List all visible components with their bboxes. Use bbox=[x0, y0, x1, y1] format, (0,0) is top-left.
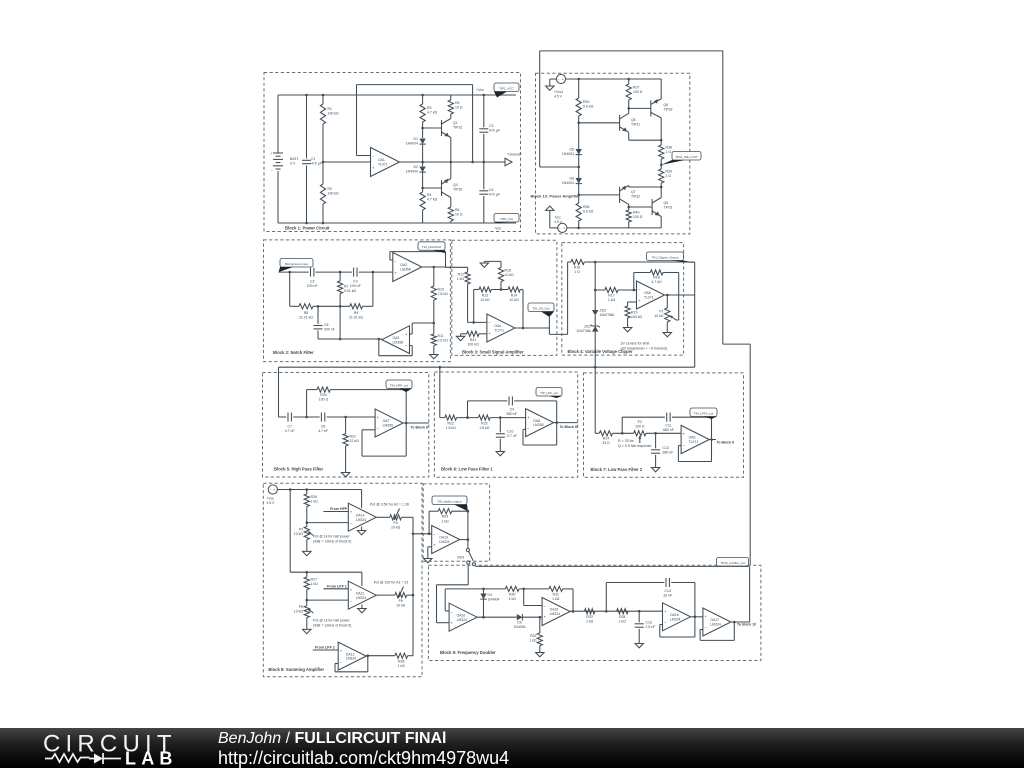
svg-text:1 kΩ: 1 kΩ bbox=[586, 620, 594, 624]
svg-text:Q8: Q8 bbox=[664, 201, 669, 205]
wire Q4 emitter to node bbox=[450, 162, 452, 179]
svg-text:C13: C13 bbox=[646, 621, 652, 625]
wire R13-R14 bbox=[491, 289, 508, 291]
wire divider to OA3 + bbox=[412, 322, 434, 324]
svg-text:+: + bbox=[704, 614, 707, 619]
svg-text:LM358: LM358 bbox=[533, 423, 543, 427]
svg-text:LM324: LM324 bbox=[356, 596, 366, 600]
junction Q1 base node bbox=[421, 127, 424, 130]
transistor Q4 TIP32 bbox=[441, 180, 443, 196]
wire OA17 output bbox=[731, 621, 750, 623]
svg-text:100 Ω: 100 Ω bbox=[633, 90, 643, 94]
svg-text:4.7 nF: 4.7 nF bbox=[285, 429, 295, 433]
block 7 outline: Low Pass Filter 2 bbox=[584, 373, 744, 477]
capacitor C9 680nF bbox=[508, 396, 510, 405]
junction OA3 out bbox=[378, 338, 381, 341]
svg-text:4.5 V: 4.5 V bbox=[267, 501, 276, 505]
wire Q4 base bbox=[423, 187, 442, 189]
svg-text:TL071: TL071 bbox=[494, 329, 504, 333]
junction R14 riser bbox=[522, 327, 525, 330]
svg-text:C10: C10 bbox=[507, 430, 513, 434]
wire row1 mid bbox=[316, 271, 352, 273]
wire Q8 collector bbox=[660, 187, 662, 198]
resistor R41 100k bbox=[461, 333, 467, 335]
svg-text:TP11_PaH_OUT: TP11_PaH_OUT bbox=[675, 155, 698, 159]
diode D1 1N4004 bbox=[422, 128, 424, 138]
svg-text:R9: R9 bbox=[354, 311, 359, 315]
svg-text:+: + bbox=[544, 615, 547, 620]
net flag Microphone Input bbox=[280, 259, 313, 268]
svg-text:+: + bbox=[488, 331, 491, 336]
svg-text:−: − bbox=[433, 532, 436, 537]
net flag TIN_LPF2_out bbox=[690, 408, 717, 417]
wire OA1 output row bbox=[400, 161, 506, 163]
junction C11 tap bbox=[621, 432, 624, 435]
capacitor C10 2.7nF bbox=[499, 418, 501, 433]
wire rectifier-out to power-amp loop bbox=[539, 51, 541, 167]
svg-text:Q1: Q1 bbox=[453, 121, 458, 125]
svg-text:R13: R13 bbox=[482, 294, 488, 298]
wire top rail block10 bbox=[566, 78, 662, 80]
svg-text:OA15: OA15 bbox=[550, 608, 559, 612]
svg-text:-Vcc: -Vcc bbox=[494, 227, 501, 231]
svg-text:10 kΩ: 10 kΩ bbox=[294, 610, 304, 614]
wire OA12 output bbox=[366, 655, 395, 657]
svg-text:+: + bbox=[527, 415, 530, 420]
wire R29 feedback bbox=[429, 510, 438, 512]
svg-text:Block 3: Small Signal Amplifie: Block 3: Small Signal Amplifier bbox=[462, 349, 524, 354]
op-amp OA13 LM324 bbox=[432, 526, 460, 554]
resistor R23 1.8k bbox=[478, 415, 490, 420]
svg-text:LM324: LM324 bbox=[550, 612, 560, 616]
resistor R14 10k bbox=[508, 287, 520, 292]
junction C3 top bbox=[483, 94, 486, 97]
resistor R16 1ohm bbox=[568, 261, 571, 263]
junction R10-R11 bbox=[433, 322, 436, 325]
svg-text:Q7: Q7 bbox=[631, 190, 636, 194]
svg-text:1 kΩ: 1 kΩ bbox=[398, 664, 406, 668]
wire OA15 output row bbox=[570, 610, 662, 612]
junction C3 bottom ground row bbox=[483, 161, 486, 164]
svg-text:+: + bbox=[638, 298, 641, 303]
wire V3 rail bbox=[277, 489, 361, 491]
svg-text:+: + bbox=[350, 509, 353, 514]
svg-text:OA16: OA16 bbox=[670, 613, 679, 617]
capacitor C3 470uF bbox=[483, 95, 485, 127]
wire Q5 base bbox=[579, 122, 620, 124]
wire minus row bbox=[468, 321, 487, 323]
svg-text:TL071: TL071 bbox=[644, 296, 654, 300]
ground R11 bbox=[433, 352, 435, 355]
op-amp OA8 LM358 bbox=[526, 409, 554, 437]
wire R18 feedback box bbox=[634, 289, 637, 291]
resistor R37 100 bbox=[628, 79, 630, 84]
svg-text:TIN_Clipper_Output: TIN_Clipper_Output bbox=[652, 255, 679, 259]
svg-text:1 Ω: 1 Ω bbox=[666, 174, 672, 178]
wire OA16 feedback box bbox=[660, 624, 663, 626]
wire Q5 collector bbox=[628, 108, 630, 113]
svg-text:D2: D2 bbox=[414, 165, 419, 169]
op-amp OA12 LM324 bbox=[338, 642, 366, 670]
svg-text:+: + bbox=[683, 432, 686, 437]
wire OA4 output bbox=[515, 327, 549, 329]
svg-text:100 nF: 100 nF bbox=[307, 284, 318, 288]
wire OA1 feedback bbox=[357, 155, 371, 157]
logo resistor squiggle bbox=[45, 754, 90, 762]
resistor R21 22k bbox=[345, 417, 347, 434]
junction OA16 out bbox=[694, 616, 697, 619]
op-amp OA3 LM358 flipped bbox=[382, 326, 410, 354]
junction filter net block6 bbox=[439, 366, 442, 369]
svg-text:100 kΩ: 100 kΩ bbox=[467, 343, 479, 347]
wire C11 feedback bbox=[621, 417, 623, 433]
resistor R1 100k bbox=[322, 95, 324, 104]
svg-text:−: − bbox=[544, 604, 547, 609]
junction R26 top bbox=[306, 488, 309, 491]
block 2 outline: Notch Filter bbox=[264, 240, 451, 362]
wire top rail block1 bbox=[278, 94, 516, 96]
svg-text:1N4004: 1N4004 bbox=[488, 598, 500, 602]
resistor R29 1k bbox=[438, 509, 452, 514]
svg-text:2.5 kΩ: 2.5 kΩ bbox=[438, 339, 449, 343]
svg-text:1 kΩ: 1 kΩ bbox=[441, 519, 449, 523]
svg-text:P4: P4 bbox=[393, 521, 397, 525]
logo diode bbox=[89, 753, 111, 764]
wire OA10 output bbox=[477, 616, 517, 618]
ground P1 bbox=[666, 330, 668, 333]
capacitor C2 100nF bbox=[310, 268, 312, 277]
svg-text:LM324: LM324 bbox=[439, 540, 449, 544]
transistor Q6 TIP32 bbox=[650, 100, 652, 116]
battery BAT1 9V bbox=[273, 152, 283, 154]
svg-text:R34: R34 bbox=[619, 615, 625, 619]
svg-text:OA1: OA1 bbox=[378, 158, 385, 162]
svg-text:−: − bbox=[372, 154, 375, 159]
resistor R8 21.01k bbox=[290, 305, 299, 307]
resistor R40 100 bbox=[626, 210, 631, 222]
wire input riser block5 bbox=[278, 367, 280, 417]
svg-text:R1: R1 bbox=[328, 107, 333, 111]
junction C10 tap bbox=[499, 416, 502, 419]
wire input from block2 bbox=[446, 266, 468, 268]
resistor R32 1k bbox=[539, 617, 541, 633]
junction mid node bbox=[660, 186, 663, 189]
svg-text:R19: R19 bbox=[631, 311, 637, 315]
wire C14 feedback bbox=[605, 583, 607, 612]
wire OA2 feedback bbox=[390, 259, 393, 261]
junction OA2 out bbox=[433, 266, 436, 269]
svg-text:OA8: OA8 bbox=[533, 419, 540, 423]
resistor R2 100k bbox=[322, 162, 324, 184]
resistor R10 7.5k bbox=[433, 267, 435, 286]
capacitor C13 1.5nF bbox=[638, 611, 640, 622]
svg-text:Q5: Q5 bbox=[631, 118, 636, 122]
block 10 outline: Power Amplifier bbox=[536, 73, 690, 234]
svg-text:R17: R17 bbox=[608, 294, 614, 298]
svg-text:C9: C9 bbox=[510, 408, 515, 412]
net flag TIP1_VCC bbox=[494, 83, 519, 92]
resistor R11 2.5k bbox=[433, 323, 435, 334]
svg-text:680 nF: 680 nF bbox=[663, 451, 674, 455]
ground V1 bbox=[550, 78, 557, 80]
diode D5 1N4004 bbox=[576, 149, 582, 155]
svg-text:P6: P6 bbox=[399, 599, 403, 603]
svg-text:R14: R14 bbox=[511, 294, 517, 298]
svg-text:Pot @ 1k for half power: Pot @ 1k for half power bbox=[313, 535, 350, 539]
svg-text:5.6 kΩ: 5.6 kΩ bbox=[583, 105, 594, 109]
transistor Q5 TIP31 bbox=[619, 115, 621, 131]
svg-text:470 µF: 470 µF bbox=[489, 193, 500, 197]
svg-text:P5: P5 bbox=[299, 605, 303, 609]
svg-text:4.7 kΩ: 4.7 kΩ bbox=[427, 111, 438, 115]
svg-text:TIN_HPF_out: TIN_HPF_out bbox=[390, 383, 409, 387]
svg-text:5.6 kΩ: 5.6 kΩ bbox=[583, 210, 594, 214]
transistor Q8 TIP31 bbox=[651, 199, 653, 215]
resistor R15 10k bbox=[500, 261, 502, 267]
junction Q5 base row bbox=[577, 122, 580, 125]
junction bus adder row bbox=[412, 533, 415, 536]
capacitor C5 200nF bbox=[317, 306, 319, 324]
svg-text:LM324: LM324 bbox=[346, 657, 356, 661]
op-amp OA16 LM324 bbox=[663, 603, 691, 631]
junction OA7 out bbox=[405, 422, 408, 425]
svg-text:R29: R29 bbox=[442, 515, 448, 519]
wire OA10 feedback row bbox=[445, 610, 449, 612]
svg-text:100 kΩ: 100 kΩ bbox=[328, 192, 340, 196]
svg-text:1 kΩ: 1 kΩ bbox=[311, 500, 319, 504]
svg-text:−: − bbox=[340, 659, 343, 664]
svg-text:−: − bbox=[350, 598, 353, 603]
potentiometer P6 10k bbox=[395, 593, 407, 598]
resistor R26 1k bbox=[306, 490, 308, 495]
junction R37 top bbox=[627, 78, 630, 81]
svg-text:TIP31: TIP31 bbox=[664, 206, 673, 210]
net flag TIP0_Vss bbox=[494, 214, 519, 223]
svg-text:R12: R12 bbox=[458, 273, 464, 277]
svg-text:R6: R6 bbox=[455, 208, 460, 212]
svg-text:To Block 8: To Block 8 bbox=[717, 441, 734, 445]
junction bus stage2 bbox=[412, 594, 415, 597]
svg-text:OA4: OA4 bbox=[494, 324, 501, 328]
junction input node bbox=[288, 271, 291, 274]
svg-text:Block 1: Power Circuit: Block 1: Power Circuit bbox=[285, 226, 330, 231]
resistor R30b 1k bbox=[505, 586, 519, 591]
potentiometer P4 10k bbox=[390, 515, 402, 520]
svg-text:+: + bbox=[372, 165, 375, 170]
svg-text:1N4738A: 1N4738A bbox=[600, 313, 615, 317]
svg-text:R33: R33 bbox=[586, 615, 592, 619]
junction D4 bottom bbox=[482, 616, 485, 619]
svg-text:TIP1_VCC: TIP1_VCC bbox=[499, 86, 514, 90]
block 9 adder outline bbox=[423, 484, 489, 561]
junction row1 right bbox=[372, 271, 375, 274]
svg-text:470 µF: 470 µF bbox=[311, 162, 322, 166]
svg-text:OA13: OA13 bbox=[439, 536, 448, 540]
ground C10 bbox=[499, 449, 501, 452]
svg-text:R30: R30 bbox=[583, 100, 589, 104]
svg-text:1N4004: 1N4004 bbox=[514, 625, 526, 629]
resistor R17 1k bbox=[595, 289, 605, 291]
svg-text:R21: R21 bbox=[350, 435, 356, 439]
junction divider mid bbox=[322, 161, 325, 164]
svg-text:−: − bbox=[664, 620, 667, 625]
junction D1-D2 node bbox=[421, 161, 424, 164]
junction output-feedback bbox=[471, 161, 474, 164]
svg-text:OA17: OA17 bbox=[710, 618, 719, 622]
voltage source V3 +Vcc bbox=[268, 485, 277, 494]
svg-text:To block 10: To block 10 bbox=[737, 622, 756, 626]
junction minus node bbox=[472, 321, 475, 324]
svg-text:Q = 0.5 flat response: Q = 0.5 flat response bbox=[618, 444, 651, 448]
ground OA14 bbox=[361, 527, 363, 531]
wire stage3 plus row bbox=[313, 649, 338, 651]
svg-text:C12: C12 bbox=[663, 446, 669, 450]
svg-text:−: − bbox=[377, 426, 380, 431]
block 9 outline: Frequency Doubler bbox=[428, 565, 761, 660]
svg-text:R24: R24 bbox=[603, 437, 609, 441]
ground C12 bbox=[655, 465, 657, 468]
net flag TIN_adder_output bbox=[432, 496, 467, 505]
ground C13 bbox=[638, 641, 640, 644]
wire clipper output riser bbox=[694, 262, 696, 367]
junction OA17 out bbox=[733, 621, 736, 624]
svg-text:R32: R32 bbox=[530, 634, 536, 638]
net flag TIN_Clipper_Output bbox=[647, 252, 684, 261]
junction R27 top bbox=[306, 571, 309, 574]
svg-text:LM358: LM358 bbox=[383, 424, 393, 428]
wire R13 to minus node bbox=[473, 290, 475, 323]
junction R2 bottom bbox=[322, 222, 325, 225]
wire C9 feedback bbox=[467, 401, 469, 418]
svg-text:R5: R5 bbox=[455, 101, 460, 105]
svg-text:Q6: Q6 bbox=[664, 103, 669, 107]
resistor R12 1k bbox=[467, 267, 469, 272]
net flag TIP_LPF_out bbox=[536, 388, 562, 397]
potentiometer P3 10k bbox=[306, 523, 308, 527]
capacitor C7 4.7nF bbox=[287, 413, 289, 422]
resistor R34 1k bbox=[617, 609, 628, 614]
svg-text:100 kΩ: 100 kΩ bbox=[328, 112, 340, 116]
svg-text:LM324: LM324 bbox=[356, 518, 366, 522]
svg-text:Q4: Q4 bbox=[453, 183, 458, 187]
wire OA8 unity feedback bbox=[523, 428, 526, 430]
svg-text:+: + bbox=[664, 609, 667, 614]
svg-text:R39: R39 bbox=[666, 170, 672, 174]
wire stage1 minus row bbox=[307, 522, 349, 524]
junction R30 top bbox=[577, 78, 580, 81]
wire OA2 output row bbox=[422, 266, 446, 268]
svg-text:TIP0_Vss: TIP0_Vss bbox=[500, 217, 514, 221]
svg-text:D5: D5 bbox=[570, 148, 575, 152]
svg-text:1.5 nF: 1.5 nF bbox=[646, 625, 656, 629]
svg-text:R3: R3 bbox=[427, 106, 432, 110]
resistor R31 1k bbox=[549, 586, 563, 591]
svg-text:1 kΩ: 1 kΩ bbox=[608, 298, 616, 302]
resistor R24 33 bbox=[595, 432, 599, 434]
svg-text:+: + bbox=[562, 78, 565, 82]
net flag TIN_HPF_out bbox=[386, 380, 412, 389]
junction OA9 out bbox=[710, 438, 713, 441]
junction OA12 out bbox=[367, 654, 370, 657]
svg-text:10 kΩ: 10 kΩ bbox=[396, 604, 406, 608]
svg-text:9 V: 9 V bbox=[290, 162, 296, 166]
junction stage2 minus node bbox=[306, 599, 309, 602]
junction output col top bbox=[660, 139, 663, 142]
net flag TIN_SS_Out bbox=[528, 303, 554, 312]
junction OA13 out bbox=[467, 538, 470, 541]
svg-text:470 µF: 470 µF bbox=[489, 129, 500, 133]
svg-text:From LPF 1: From LPF 1 bbox=[327, 584, 347, 588]
wire input riser bbox=[567, 262, 569, 334]
wire rail drop to stage2 bbox=[289, 490, 291, 573]
svg-text:P2: P2 bbox=[638, 420, 642, 424]
resistor R7 9.01k bbox=[339, 272, 341, 281]
svg-text:LM324: LM324 bbox=[670, 617, 680, 621]
wire row2 right riser bbox=[372, 272, 374, 306]
svg-text:+Vcc: +Vcc bbox=[476, 88, 484, 92]
wire row C7-C8 bbox=[293, 416, 319, 418]
op-amp OA10 LM324 bbox=[449, 603, 477, 631]
ground R41 bbox=[460, 334, 462, 337]
junction filter net block7 bbox=[594, 366, 597, 369]
svg-text:OA11: OA11 bbox=[356, 591, 365, 595]
wire OA11 vplus pin bbox=[361, 572, 363, 586]
junction C1 bottom bbox=[305, 222, 308, 225]
svg-text:C4: C4 bbox=[489, 188, 494, 192]
svg-text:100 nF: 100 nF bbox=[350, 284, 361, 288]
svg-text:680 nF: 680 nF bbox=[507, 412, 518, 416]
junction R36 bottom bbox=[577, 227, 580, 230]
wire OA14 output bbox=[376, 516, 390, 518]
wire OA13 plus to ground bbox=[428, 546, 432, 548]
junction R29 out bbox=[467, 510, 470, 513]
resistor R39 1ohm bbox=[660, 165, 662, 169]
junction R20 tap bbox=[305, 416, 308, 419]
svg-text:OA12: OA12 bbox=[346, 652, 355, 656]
op-amp OA1 TL071 bbox=[371, 148, 400, 177]
wire plus bias bbox=[628, 301, 637, 303]
svg-text:R11: R11 bbox=[438, 334, 444, 338]
svg-text:R4: R4 bbox=[427, 193, 432, 197]
transistor Q1 TIP31 bbox=[441, 120, 443, 136]
wire stage2 minus row bbox=[307, 599, 349, 601]
wire Q8 emitter bbox=[660, 217, 662, 228]
wire OA8 output bbox=[554, 422, 578, 424]
wire OA12 feedback box bbox=[335, 663, 338, 665]
svg-text:Block 10: Power Amplifier: Block 10: Power Amplifier bbox=[531, 193, 581, 198]
ground P3 bbox=[306, 549, 308, 552]
svg-text:−: − bbox=[405, 343, 408, 348]
wire OA15 minus riser bbox=[523, 589, 525, 606]
svg-text:OA9: OA9 bbox=[689, 436, 696, 440]
svg-text:−: − bbox=[488, 320, 491, 325]
svg-text:R16: R16 bbox=[574, 266, 580, 270]
wire Q7 emitter row bbox=[628, 185, 630, 187]
op-amp OA15 LM324 bbox=[542, 598, 570, 626]
svg-text:100 Ω: 100 Ω bbox=[319, 398, 329, 402]
op-amp OA9 TL071 bbox=[681, 425, 709, 453]
svg-text:Block 8: Summing Amplifier: Block 8: Summing Amplifier bbox=[268, 667, 324, 672]
capacitor C11 680nF bbox=[666, 413, 668, 422]
junction Q1 emitter node bbox=[450, 161, 453, 164]
svg-text:10 kΩ: 10 kΩ bbox=[654, 314, 664, 318]
svg-text:OA3: OA3 bbox=[393, 336, 400, 340]
wire battery to rails bbox=[277, 95, 279, 153]
svg-text:D4: D4 bbox=[488, 593, 492, 597]
svg-text:Pot @ 100 for A1 = 23: Pot @ 100 for A1 = 23 bbox=[374, 580, 409, 584]
junction R17 tap bbox=[594, 289, 597, 292]
svg-text:9.01 kΩ: 9.01 kΩ bbox=[344, 289, 357, 293]
